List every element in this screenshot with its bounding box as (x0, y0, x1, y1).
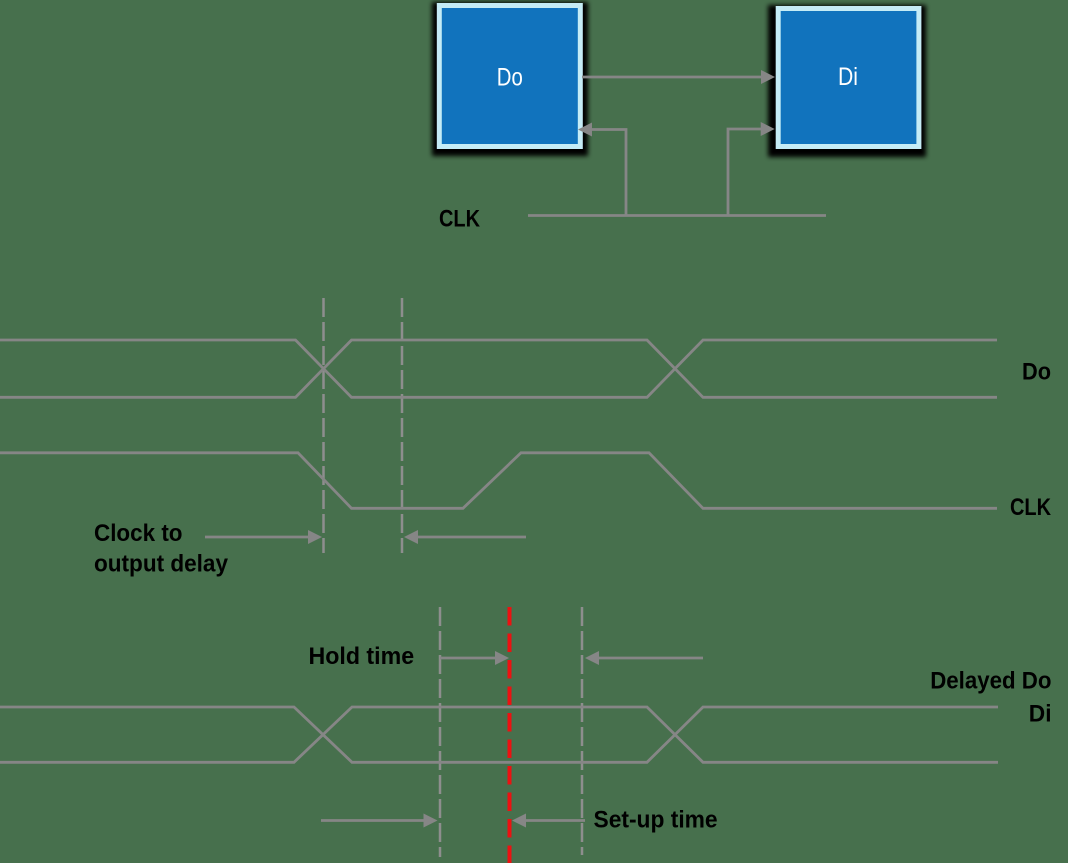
delayed bus waveform upper (0, 707, 998, 762)
svg-text:Di: Di (1029, 701, 1052, 728)
svg-text:CLK: CLK (1010, 494, 1052, 521)
hold arrow right (598, 657, 703, 660)
block Do (437, 3, 583, 149)
arrowhead into Do (578, 123, 592, 137)
wire clk to Di (728, 129, 761, 217)
block Di shadow (768, 5, 926, 157)
svg-text:Do: Do (497, 64, 523, 92)
svg-text:CLK: CLK (439, 206, 481, 233)
CLK wire (528, 214, 826, 217)
block Di (776, 6, 922, 149)
setup arrow right (525, 819, 585, 822)
arrowhead into Di bottom (761, 122, 775, 136)
delay arrow right (417, 536, 526, 539)
svg-text:Delayed Do: Delayed Do (930, 668, 1051, 695)
svg-text:Set-up time: Set-up time (594, 807, 718, 834)
svg-text:Di: Di (838, 63, 858, 91)
delay arrow left (205, 536, 309, 539)
arrowhead into Di top (761, 70, 775, 84)
Do bus waveform upper (0, 340, 997, 397)
dashed line data valid (401, 298, 404, 553)
dashed line clk edge (322, 298, 325, 553)
Do bus waveform lower (0, 340, 997, 397)
CLK waveform (0, 453, 997, 509)
wire clk to Do (591, 130, 626, 217)
delayed bus waveform lower (0, 707, 998, 762)
svg-text:Hold time: Hold time (309, 643, 415, 670)
dashed line setup start (581, 607, 584, 855)
dashed line hold start (439, 607, 442, 857)
svg-text:Do: Do (1022, 358, 1051, 385)
wire Do to Di (582, 76, 762, 79)
svg-text:output delay: output delay (94, 551, 229, 578)
hold arrow (440, 657, 496, 660)
setup arrow left (321, 819, 425, 822)
block Do shadow (432, 2, 588, 156)
svg-text:Clock to: Clock to (94, 520, 183, 547)
red dashed clock edge (508, 607, 512, 863)
